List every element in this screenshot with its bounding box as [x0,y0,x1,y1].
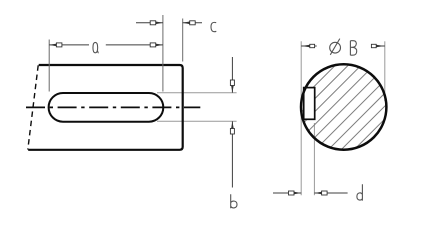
dimension a line [49,44,163,46]
label c [211,22,216,31]
hidden dashed edge left [28,65,38,149]
dimension B line right segment [372,45,385,47]
center line [26,106,200,108]
dimension b arrow bottom (points up) [231,121,234,128]
dimension a extension line left [48,40,50,92]
dimension d tail left [273,192,301,194]
wire: extension line top of slot for dim b [157,92,237,94]
wire: extension line right side of keyway for dim d [313,123,315,195]
label d [357,184,363,200]
wire: extension line right of circle for dim B [384,41,386,101]
label B [350,41,356,56]
dimension d tail right [314,192,347,194]
slot (obround hole) [49,93,164,122]
wire: extension line left of circle (shared by dim B and dim d) [300,41,302,195]
dimension d arrow right (points left) [314,192,321,195]
dimension c extension line right [182,19,184,62]
dimension a/c shared extension line right [162,15,164,92]
dimension c arrow left (points right) [156,22,163,25]
node: hatched cross-section of shaft [241,38,425,160]
circle: shaft outline [301,64,386,149]
label b [231,194,237,208]
label a [93,42,99,53]
dimension B arrow right (points right) [376,45,385,47]
dimension c tail left [136,22,163,24]
dimension B line left segment [301,45,317,47]
dimension b arrow top (points down) [231,86,234,93]
part outline left view [28,65,183,150]
dimension d arrow left (points right) [294,192,301,195]
dimension a arrow left [49,44,56,47]
dimension a arrow right [156,44,163,47]
dimension b line top [231,57,233,93]
label diameter symbol [330,39,341,55]
keyway rectangle [304,88,315,120]
dimension c arrow right (points left) [183,22,190,25]
wire: extension line bottom of slot for dim b [157,120,237,122]
dimension b line bottom [231,121,233,187]
dimension c tail right [183,22,203,24]
dimension B arrow left (points left) [301,45,310,47]
